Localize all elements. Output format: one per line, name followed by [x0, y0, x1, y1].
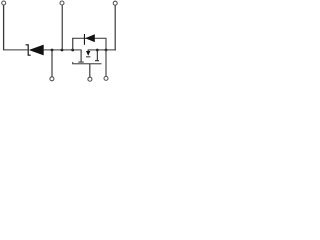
diode D3 anode lead [88, 50, 89, 52]
terminal B1 (bottom, x52) [50, 77, 54, 81]
wire top rail [72, 38, 106, 39]
capacitor plate [78, 61, 84, 64]
wire drop to B1 [51, 50, 53, 77]
wire riser left of top rail [72, 38, 74, 50]
diode D1 triangle (anode, pointing left) [29, 45, 44, 56]
branch lead at x97.3 [97, 50, 98, 60]
node dot at x72.7 [71, 49, 74, 52]
node dot at x106 [105, 49, 108, 52]
diode D3 cathode bar [86, 55, 90, 58]
terminal T1 (top left) [2, 1, 6, 5]
terminal B2 (bottom middle) [88, 77, 92, 81]
capacitor branch lead from main wire corner at x81 [81, 50, 82, 62]
wire main horizontal right segment [88, 49, 116, 50]
wire main horizontal left segment [3, 49, 28, 50]
wire bottom rail left nub [72, 62, 73, 64]
wire T1 lead down [3, 5, 5, 50]
wire T2 lead down [61, 5, 63, 50]
diode D3 triangle (pointing down) [86, 51, 90, 56]
wire main horizontal middle segment [44, 49, 82, 50]
wire riser right of top rail [105, 38, 107, 50]
diode D1 (zener/TVS) cathode bar with hooks [26, 44, 31, 55]
node dot at x97.3 [96, 49, 99, 52]
wire drop from main wire to B3 [105, 50, 107, 77]
node dot at x62 [61, 49, 64, 52]
diode D2 cathode bar (tall) [84, 34, 85, 45]
terminal T3 (top right) [113, 1, 117, 5]
wire bottom rail [72, 63, 101, 64]
branch foot plate at x97.3 [95, 60, 99, 61]
diode D2 triangle (pointing left on top rail) [85, 34, 95, 42]
terminal B3 (bottom right) [104, 76, 108, 80]
node dot at x52 [51, 49, 54, 52]
wire drop from bottom rail to B2 [89, 64, 91, 78]
wire corner up to T3 [115, 49, 116, 50]
terminal T2 (top middle) [60, 1, 64, 5]
